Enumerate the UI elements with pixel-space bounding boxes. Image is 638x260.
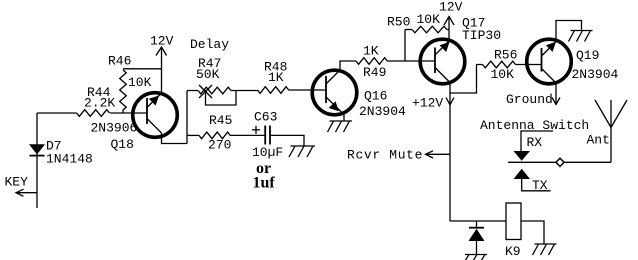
wire Q16 emitter to ground [343,115,345,122]
wire R49 to Q17 base [387,60,435,62]
transistor Q17 [420,39,465,84]
svg-text:1K: 1K [363,44,379,59]
diode TX [514,169,531,179]
wire C63 to ground [270,135,304,146]
wire R44 to Q18 base [110,112,147,114]
wire TX stub bracket [522,179,551,191]
ground (relay) [533,244,557,255]
wire Q18 emitter loop to delay rail [162,133,188,144]
svg-text:50K: 50K [196,67,220,82]
svg-text:+12V: +12V [412,96,443,111]
svg-text:1N4148: 1N4148 [46,152,93,167]
wire Q19 emitter with Ground annotation arrow [552,83,560,105]
node diamond junction [556,158,564,166]
wire 12V to Q18 collector [161,47,163,94]
wire KEY vertical [36,113,38,208]
resistor R45 [187,132,230,139]
svg-text:Q19: Q19 [576,48,599,63]
ground (top right) [569,31,593,42]
diode RX [514,151,531,161]
svg-text:12V: 12V [439,0,463,15]
svg-text:R49: R49 [363,65,386,80]
transistor Q16 [312,70,357,115]
resistor R49 [356,58,387,65]
svg-text:10K: 10K [128,75,152,90]
svg-text:Ground: Ground [506,92,553,107]
resistor R50 [405,26,449,61]
power 12V (right) [439,0,463,25]
ground (Q16) [328,121,353,132]
svg-text:R50: R50 [387,15,410,30]
wire RX stub bracket [521,131,553,151]
antenna Ant [595,100,627,162]
wire 12V to Q17 [448,17,450,42]
svg-text:C63: C63 [254,110,277,125]
svg-text:Ant: Ant [587,133,610,148]
wire R56 to Q19 base [516,64,542,66]
svg-text:R46: R46 [108,54,131,69]
wire antenna common node [508,161,611,163]
power +12V annotation [412,96,454,111]
wire delay rail vertical [186,91,188,144]
svg-text:R45: R45 [209,113,232,128]
wire Q17 emitter main vertical [449,83,451,222]
svg-text:Q16: Q16 [364,89,387,104]
resistor R46 [120,69,162,113]
node Rcvr Mute [347,148,450,163]
wire Q19 collector to ground [556,21,582,42]
power 12V (left) [150,34,174,56]
svg-text:RX: RX [527,135,543,150]
ground (C63) [289,146,315,157]
wire relay to ground [521,221,544,244]
node KEY: annotation arrow [16,189,37,196]
svg-text:2.2K: 2.2K [84,96,115,111]
resistor R44 [77,110,110,117]
wire R48 to Q16 base [289,89,327,91]
relay K9 coil [506,203,521,240]
svg-text:2N3906: 2N3906 [91,121,138,136]
wire Q16 collector up [340,61,356,70]
resistor R56 [483,61,516,68]
svg-text:2N3904: 2N3904 [359,104,406,119]
transistor Q18 [133,93,178,138]
resistor R47 [187,85,231,98]
wire KEY top horizontal to R44 [37,112,77,114]
wire branch to R56 [450,65,483,94]
wire R47 to R48 [231,90,258,92]
diode flyback (relay) [469,221,485,255]
diode D7 [29,144,45,155]
svg-text:10µF: 10µF [252,145,283,160]
svg-text:Q18: Q18 [111,137,134,152]
svg-text:Delay: Delay [190,37,229,52]
svg-text:KEY: KEY [5,175,29,190]
svg-text:10K: 10K [491,67,515,82]
ground (flyback diode) [465,255,487,260]
svg-text:Rcvr Mute: Rcvr Mute [347,148,423,163]
svg-text:K9: K9 [505,244,521,259]
wire R47 wiper loop [206,91,237,106]
svg-text:1K: 1K [268,70,284,85]
svg-text:TX: TX [532,178,548,193]
wire main vertical to relay [450,220,506,222]
svg-text:10K: 10K [417,12,441,27]
svg-text:TIP30: TIP30 [462,28,501,43]
svg-text:R56: R56 [494,48,517,63]
svg-text:1uf: 1uf [253,175,276,192]
resistor R48 [258,87,289,94]
svg-text:2N3904: 2N3904 [572,67,619,82]
svg-text:270: 270 [208,138,231,153]
transistor Q19 [527,39,572,84]
wire R45 to C63 [230,134,265,136]
capacitor C63 [252,126,270,145]
